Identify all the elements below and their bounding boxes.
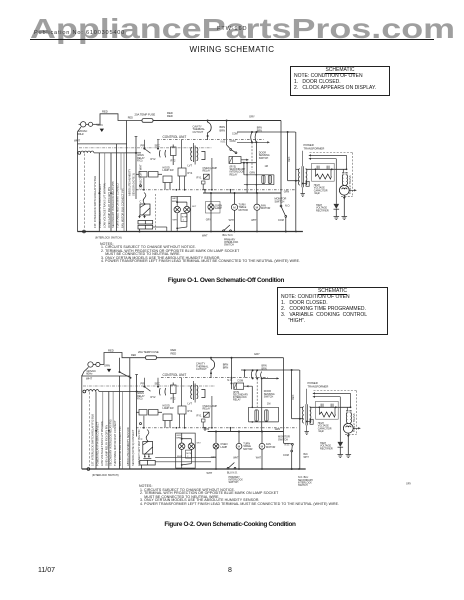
wire lamp row horizontal (S2) (208, 431, 284, 433)
wire leg e (184, 176, 186, 190)
capacitor C2 (262, 175, 265, 183)
wire sensor feed down (S2) (136, 375, 138, 437)
wire right leg down (280, 121, 282, 206)
wire cathode (343, 195, 345, 216)
svg-text:BRN: BRN (177, 437, 182, 439)
svg-text:OVEN LAMP RELAY RY3 GRY PIN: OVEN LAMP RELAY RY3 GRY PIN (105, 425, 109, 466)
wire sensor to rail (S2) (141, 465, 143, 469)
node door sense b (S2) (256, 377, 258, 379)
fan motor M2 (254, 193, 260, 232)
wire neutral vertical (S2) (81, 375, 83, 469)
relay contact arm (144, 149, 150, 154)
svg-text:MOTOR: MOTOR (243, 448, 252, 451)
oven lamp bulb 2 (184, 206, 190, 212)
svg-text:RY2: RY2 (151, 395, 157, 399)
wire leg i (230, 190, 232, 193)
node RY5 feed (S2) (231, 357, 233, 359)
svg-text:WHT: WHT (207, 472, 213, 475)
ground magnetron (S2) (346, 455, 352, 458)
wire neutral vertical (76, 144, 78, 232)
svg-text:BLU N.O.: BLU N.O. (227, 471, 238, 474)
fan motor M2 (S2) (259, 432, 265, 470)
transformer core ground line (302, 151, 304, 167)
svg-text:SECONDARY INTERLOCK RELAY RY5: SECONDARY INTERLOCK RELAY RY5 (109, 419, 113, 466)
node ry5h a (243, 162, 245, 164)
wire rail tap (S2) (119, 358, 121, 372)
resistor R1 bleeder (314, 169, 316, 176)
HV dashed enclosure (310, 152, 353, 154)
wire cathode (S2) (347, 433, 349, 454)
wire sensor feed down (135, 137, 137, 200)
relay coil box RY5 (S2) (234, 383, 244, 389)
wire bus line 1 (116, 144, 118, 232)
notes block schematic 2 (139, 485, 339, 506)
svg-text:RY4: RY4 (188, 410, 193, 413)
wire down a (246, 163, 248, 193)
capacitor C3 (S2) (265, 410, 268, 421)
svg-text:SKT: SKT (197, 443, 202, 445)
watermark AppliancePartsPros.com (30, 14, 455, 42)
node sec (157, 148, 159, 150)
svg-text:20A TEMP FUSE: 20A TEMP FUSE (138, 350, 159, 354)
control unit boundary top (157, 139, 264, 141)
svg-text:RED: RED (171, 348, 177, 352)
transformer LVT low voltage (S2) (194, 384, 196, 401)
node bus mid b (S2) (108, 430, 110, 432)
svg-text:M: M (261, 445, 264, 449)
caption figure O-1 (0, 277, 452, 284)
header publication number (34, 30, 125, 36)
wire HV feed horizontal (S2) (241, 369, 300, 371)
chassis dash-dot line (79, 147, 212, 149)
wire bus line 3 (S2) (108, 392, 110, 470)
wire filament lower (S2) (313, 396, 341, 398)
wire leg thermistor (143, 178, 145, 190)
label note2 box (S2) (186, 450, 192, 458)
wire bus line 2 (98, 153, 100, 232)
capacitor plates (S2) (320, 404, 322, 408)
primary interlock switch S1 (S2) (227, 463, 236, 470)
transformer LVT low voltage (194, 146, 196, 163)
lamp socket box (206, 202, 221, 214)
node door sense b (255, 141, 257, 143)
capacitor C3 (268, 175, 271, 183)
magnetron antenna arrow (349, 189, 356, 191)
node pri (143, 148, 145, 150)
fuse F1 20A TEMP FUSE (142, 119, 153, 123)
inductor L1 noise coil (81, 151, 94, 153)
svg-text:WHT: WHT (86, 376, 92, 380)
node caps a (246, 174, 248, 176)
transformer T1 core (301, 166, 303, 187)
wire primary left (S2) (291, 370, 293, 419)
control unit boundary bottom (S2) (136, 427, 298, 429)
wire sec stub (157, 140, 159, 149)
wire relay feed (181, 140, 183, 168)
svg-text:BRN: BRN (223, 366, 229, 370)
lamp feed wire (S2) (181, 433, 183, 439)
diode D1 high voltage rectifier (334, 204, 340, 209)
relay box B (S2) (163, 414, 172, 421)
node hv c (S2) (350, 406, 352, 408)
wire bus line 6 (120, 153, 122, 190)
svg-text:ABSOLUTE HUMIDITY SENSOR: ABSOLUTE HUMIDITY SENSOR (126, 427, 130, 466)
wire neutral drop (S2) (82, 367, 89, 376)
wire leg h (204, 190, 206, 193)
wire bus line 4 (S2) (129, 358, 131, 469)
wire primary right (295, 132, 297, 232)
transformer T1 secondary winding (306, 169, 307, 185)
node dash dots (S2) (143, 427, 145, 429)
transformer core ground line (S2) (306, 389, 308, 405)
svg-text:N.O.: N.O. (227, 379, 232, 382)
ground triangle GRN (S2) (107, 369, 111, 372)
svg-text:.91µF: .91µF (318, 430, 325, 433)
svg-text:SEC: SEC (155, 381, 160, 385)
wire neutral bus horizontal (77, 143, 126, 145)
wire sensor to rail (139, 229, 141, 232)
svg-text:FAN MOTOR BLK CONNECT PIN: FAN MOTOR BLK CONNECT PIN (118, 426, 122, 466)
terminal ring bottom (83, 230, 86, 233)
relay box A (S2) (171, 385, 177, 394)
magnetron V1 (339, 185, 349, 195)
feedthrough capacitors (S2) (346, 407, 348, 410)
svg-text:LAMP SW: LAMP SW (163, 407, 175, 410)
rail dots (210, 231, 212, 233)
svg-text:RED: RED (108, 348, 114, 352)
wire sensor link a (S2) (155, 457, 216, 459)
magnetron V1 (S2) (343, 423, 353, 433)
svg-text:1M: 1M (267, 403, 270, 406)
capacitor C2 (S2) (255, 410, 258, 421)
wire bus line 2 (S2) (95, 392, 97, 470)
ground magnetron (342, 217, 348, 220)
wire pri stub (143, 140, 145, 149)
capacitor plates (316, 166, 318, 170)
wire lvt secondary down (S2) (211, 396, 213, 428)
door sense dashed (S2) (256, 378, 258, 407)
svg-text:RED: RED (292, 395, 295, 400)
humidity sensor pigtail (143, 193, 146, 205)
node fan (256, 192, 258, 194)
node dash dots (143, 189, 145, 191)
wire leg d (S2) (179, 414, 181, 428)
filament chokes (S2) (345, 413, 348, 423)
svg-text:COM: COM (237, 379, 243, 382)
wire leg b (169, 183, 171, 190)
svg-text:GRN: GRN (104, 363, 110, 367)
header rule (30, 39, 434, 40)
wire filament lower (309, 158, 337, 160)
primary interlock switch S1 (223, 225, 232, 232)
node hv c (346, 168, 348, 170)
monitor switch S4 (S2) (284, 443, 294, 469)
oven lamp LP1 (208, 193, 214, 232)
control unit boundary bottom (136, 189, 296, 191)
wire leg h (S2) (204, 428, 206, 431)
node caps a (S2) (252, 407, 254, 409)
relay box A (171, 147, 177, 156)
plug P1 120VAC 60Hz (79, 122, 96, 127)
relay coil RY3 (203, 174, 209, 179)
wire primary right (S2) (299, 370, 301, 470)
footer date (38, 567, 55, 574)
wire inductor to bus (S2) (99, 391, 144, 393)
wire bus line 1 (S2) (119, 376, 121, 469)
node circle (140, 185, 142, 187)
node pri (S2) (143, 386, 145, 388)
wire leg c (172, 158, 174, 165)
note box 1 (290, 66, 390, 96)
ground triangle GRN (100, 129, 104, 132)
relay terminal box (202, 181, 206, 184)
node monitor bottom (S2) (291, 468, 293, 470)
note box 2 (277, 287, 388, 335)
oven lamp socket box (171, 197, 191, 232)
HV capacitor dashed box (312, 163, 335, 181)
wire bus line 4 (126, 121, 128, 232)
node primary bottom (295, 180, 297, 182)
wire neutral drop (77, 127, 81, 144)
svg-text:RECTIFIER: RECTIFIER (320, 447, 333, 450)
fuse F1 20A TEMP FUSE (S2) (146, 356, 157, 360)
node bus mid a (S2) (95, 430, 97, 432)
control unit boundary top (S2) (161, 377, 268, 379)
feedthrough capacitors (342, 169, 344, 172)
node ttm (S2) (238, 431, 240, 433)
relay coil box RY5 (229, 157, 241, 164)
svg-text:60Hz: 60Hz (86, 372, 93, 376)
wire bus line 7 (S2) (122, 392, 124, 470)
filament chokes (341, 175, 344, 185)
relay coil RY4 box (S2) (178, 406, 186, 414)
node sec (S2) (157, 386, 159, 388)
wire ry5 com horizontal (241, 162, 256, 164)
wire HV feed horizontal (237, 131, 296, 133)
terminal ring (78, 152, 81, 155)
node secondary bottom (S2) (306, 421, 308, 423)
oven lamp bulb 2 (S2) (188, 443, 194, 449)
wire sensor link (153, 226, 167, 228)
svg-text:TRANSFORMER: TRANSFORMER (308, 384, 329, 388)
terminal box secondary (303, 183, 306, 185)
humidity sensor AH1 (S2) (143, 442, 153, 457)
wire leg b (S2) (169, 421, 171, 428)
node secondary bottom (302, 183, 304, 185)
node lamp (S2) (215, 431, 217, 433)
wire HV line (306, 168, 347, 170)
relay contact RY2 (159, 150, 165, 157)
svg-text:LVT: LVT (188, 402, 193, 406)
wire plug to top rail (S2) (104, 353, 146, 365)
wire right leg down (S2) (283, 358, 285, 444)
relay terminal box (S2) (202, 419, 206, 422)
wire to relay RY5 (S2) (231, 358, 233, 390)
bottom rail (S2) (82, 468, 306, 470)
node feed b (S2) (256, 369, 258, 371)
node lamp (210, 192, 212, 194)
terminal box secondary (S2) (307, 421, 310, 423)
oven lamp bulb 1 (S2) (179, 443, 185, 449)
svg-text:COM: COM (283, 454, 289, 457)
relay contact RY2 (S2) (159, 388, 165, 395)
turntable motor M1 (S2) (236, 432, 242, 470)
turntable motor M1 (231, 193, 237, 232)
wire bus line 5 (S2) (102, 392, 104, 428)
door sense hooks (251, 132, 257, 142)
node primary feed (287, 131, 289, 133)
rail dots (S2) (215, 468, 217, 470)
wire neutral bus horizontal (S2) (82, 375, 130, 377)
header model number (217, 26, 247, 32)
wire down b (243, 163, 245, 175)
node cutout junction (207, 120, 209, 122)
svg-text:(INTERLOCK SWITCH): (INTERLOCK SWITCH) (92, 474, 119, 477)
terminal ring bottom (S2) (87, 468, 90, 471)
transformer T1 primary winding (299, 169, 300, 185)
svg-text:BLK: BLK (304, 454, 309, 456)
wire leg e (S2) (184, 414, 186, 428)
svg-text:RELAY: RELAY (203, 408, 211, 411)
oven lamp LP1 (S2) (213, 432, 219, 470)
wire door sense down (S2) (261, 378, 263, 431)
node primary feed (S2) (291, 369, 293, 371)
label note2 box (181, 214, 187, 222)
svg-text:RED: RED (171, 352, 177, 356)
inductor L1 noise coil (S2) (86, 390, 99, 392)
node bus junction (135, 152, 137, 154)
node door sense a (S2) (252, 377, 254, 379)
svg-text:GRN: GRN (275, 428, 281, 431)
svg-text:SWITCH: SWITCH (229, 481, 239, 484)
HV capacitor dashed box (S2) (316, 401, 339, 419)
humidity sensor AH1 (140, 204, 151, 216)
svg-text:NOTE: NOTE (186, 453, 192, 455)
wire leg c (S2) (172, 396, 174, 403)
wire sec stub (S2) (157, 378, 159, 387)
node hv a (315, 168, 317, 170)
svg-text:TO H.V. TRANS: TO H.V. TRANS (352, 413, 356, 432)
svg-text:COM: COM (204, 428, 210, 431)
svg-text:C: C (141, 438, 143, 441)
relay contact RY5 secondary interlock (227, 140, 237, 154)
wire com arrow line (237, 141, 270, 143)
svg-text:POWER: POWER (308, 381, 318, 385)
svg-text:MOTOR: MOTOR (266, 446, 275, 449)
wire door sense arrow (S2) (262, 377, 279, 379)
wire lamp row horizontal (203, 192, 281, 194)
svg-text:CUTOUT: CUTOUT (196, 367, 207, 371)
resistor R1 bleeder (S2) (318, 407, 320, 414)
node feed a (251, 131, 253, 133)
node ry5h b (246, 162, 248, 164)
cavity thermal cutout TCO1 (S2) (211, 360, 215, 370)
wire bus line 7 (123, 153, 125, 232)
relay coil RY3 (S2) (203, 412, 209, 417)
noise caps rails (244, 174, 274, 176)
node cutout junction (S2) (210, 357, 212, 359)
node bus junction (S2) (136, 391, 138, 393)
oven lamp socket box (S2) (176, 433, 196, 468)
terminal ring (S2) (83, 390, 86, 393)
node RY5 feed (226, 120, 228, 122)
title WIRING SCHEMATIC (0, 45, 464, 54)
ground transformer (300, 194, 304, 197)
svg-text:M: M (238, 445, 241, 449)
relay contact arm (S2) (144, 387, 150, 392)
node feed b (255, 131, 257, 133)
relay box B (163, 176, 172, 183)
node fan (S2) (261, 431, 263, 433)
svg-text:1ST. INTERLOCK SWITCH RELAY RY: 1ST. INTERLOCK SWITCH RELAY RY2 BLK (91, 414, 95, 466)
relay coil RY4 box (178, 168, 186, 176)
svg-text:RY1: RY1 (197, 414, 203, 418)
svg-text:N.O.: N.O. (285, 444, 290, 447)
transformer T1 core (S2) (305, 404, 307, 425)
node ttm (234, 192, 236, 194)
wire leg thermistor (S2) (143, 416, 145, 428)
svg-text:LOW VOLTAGE TRANS LVT WHT PIN: LOW VOLTAGE TRANS LVT WHT PIN (100, 421, 104, 466)
node door sense a (251, 141, 253, 143)
node bus mid b (110, 192, 112, 194)
svg-text:BRN: BRN (223, 362, 229, 366)
wire com drop (S2) (244, 370, 246, 377)
svg-text:TURNTABLE MOTOR WHT CONNECT: TURNTABLE MOTOR WHT CONNECT (113, 420, 117, 466)
node hv b (331, 168, 333, 170)
relay arrow RY5 (S2) (244, 385, 253, 387)
node door sense c (S2) (261, 377, 263, 379)
svg-text:WHT: WHT (304, 457, 310, 459)
cavity thermal cutout TCO1 (208, 122, 212, 132)
wire filament upper (309, 154, 347, 156)
wire leg i (S2) (230, 428, 232, 431)
relay arrow RY5 (241, 159, 249, 161)
wire bus line 3 (110, 153, 112, 232)
thermistor boxes (139, 172, 147, 178)
node feed a (S2) (252, 369, 254, 371)
svg-text:RY2): RY2) (137, 397, 143, 400)
node monitor bottom (285, 231, 287, 233)
wire top rail (S2) (157, 357, 284, 359)
svg-text:LAMP: LAMP (220, 446, 227, 449)
monitor switch S4 (280, 205, 287, 231)
chassis dashed drop (S2) (89, 392, 91, 466)
ground transformer (S2) (304, 432, 308, 435)
lamp feed wire (176, 197, 178, 203)
humidity sensor pigtail (S2) (146, 430, 149, 442)
diode D1 high voltage rectifier (S2) (338, 442, 344, 447)
svg-text:SENSOR (NOTE 3) CONNECT: SENSOR (NOTE 3) CONNECT (131, 429, 135, 466)
svg-text:SWITCH: SWITCH (264, 395, 274, 398)
magnetron antenna arrow (S2) (353, 427, 360, 429)
wire plug to top rail (96, 114, 142, 125)
wire relay feed (S2) (181, 378, 183, 406)
footer page number (228, 567, 232, 574)
plug P2 120VAC 60Hz (S2) (88, 362, 104, 367)
wire top rail (153, 120, 281, 122)
caption figure O-2 (0, 521, 460, 528)
svg-text:WHT: WHT (177, 456, 183, 458)
transformer T1 secondary winding (S2) (310, 407, 311, 423)
wire lvt secondary down (211, 158, 213, 190)
svg-text:POWER RELAY RY4 BRN CONNECT: POWER RELAY RY4 BRN CONNECT (96, 421, 100, 466)
node hv a (S2) (319, 406, 321, 408)
ground rectifier (S2) (338, 455, 344, 458)
node primary bottom (S2) (299, 418, 301, 420)
thermistor boxes (S2) (139, 410, 147, 416)
transformer T1 primary winding (S2) (303, 407, 304, 423)
node bus mid a (98, 192, 100, 194)
